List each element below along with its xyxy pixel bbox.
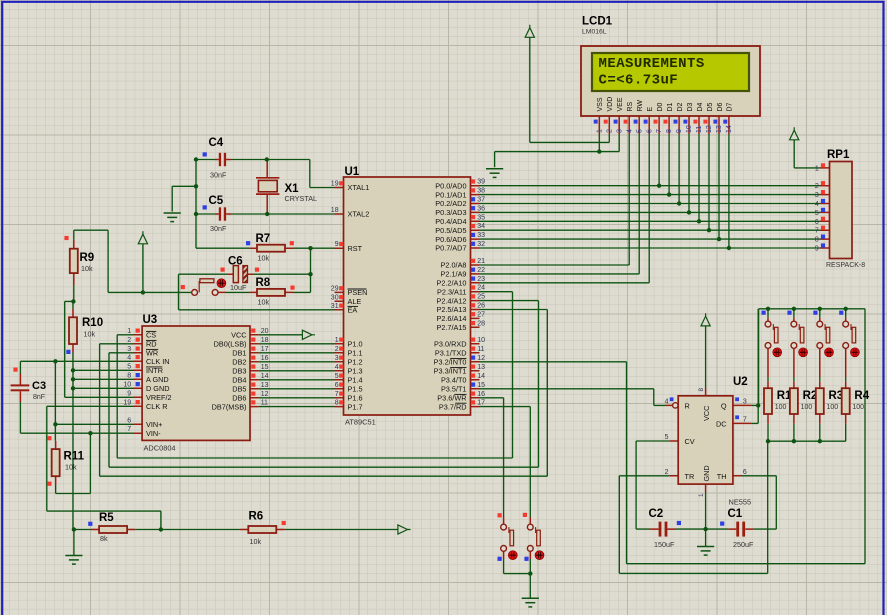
- svg-text:7: 7: [127, 426, 131, 433]
- svg-text:8: 8: [698, 388, 705, 392]
- svg-text:33: 33: [477, 232, 485, 239]
- svg-text:10k: 10k: [250, 537, 262, 546]
- svg-text:RD: RD: [146, 340, 157, 349]
- svg-text:U2: U2: [733, 376, 748, 388]
- svg-text:P0.5/AD5: P0.5/AD5: [435, 226, 466, 235]
- svg-text:20: 20: [261, 328, 269, 335]
- svg-text:34: 34: [477, 223, 485, 230]
- svg-text:D GND: D GND: [146, 384, 170, 393]
- svg-text:D1: D1: [667, 102, 674, 111]
- svg-text:9: 9: [676, 129, 683, 133]
- svg-text:15: 15: [261, 364, 269, 371]
- svg-text:30nF: 30nF: [210, 171, 227, 180]
- svg-text:D3: D3: [687, 102, 694, 111]
- svg-text:4: 4: [127, 354, 131, 361]
- svg-text:11: 11: [477, 346, 484, 353]
- svg-text:10: 10: [123, 381, 131, 388]
- svg-text:12: 12: [261, 391, 269, 398]
- svg-text:2: 2: [335, 346, 339, 353]
- svg-text:P1.4: P1.4: [348, 376, 363, 385]
- svg-text:2: 2: [665, 469, 669, 476]
- svg-text:AT89C51: AT89C51: [345, 418, 376, 427]
- svg-text:8: 8: [335, 400, 339, 407]
- svg-text:D7: D7: [727, 102, 734, 111]
- svg-text:150uF: 150uF: [654, 540, 675, 549]
- svg-text:INTR: INTR: [146, 366, 163, 375]
- svg-text:10k: 10k: [258, 254, 270, 263]
- svg-text:15: 15: [477, 382, 485, 389]
- svg-text:VCC: VCC: [702, 406, 711, 421]
- svg-text:XTAL2: XTAL2: [348, 210, 370, 219]
- svg-text:P3.3/INT1: P3.3/INT1: [434, 367, 467, 376]
- svg-text:9: 9: [335, 241, 339, 248]
- svg-text:TR: TR: [685, 472, 695, 481]
- svg-text:D0: D0: [657, 102, 664, 111]
- svg-text:D2: D2: [677, 102, 684, 111]
- svg-text:1: 1: [698, 493, 705, 497]
- svg-text:P1.3: P1.3: [348, 367, 363, 376]
- svg-text:CV: CV: [685, 437, 695, 446]
- svg-text:10k: 10k: [258, 298, 270, 307]
- svg-text:8: 8: [815, 237, 819, 244]
- svg-text:1: 1: [596, 129, 603, 133]
- svg-text:18: 18: [261, 337, 269, 344]
- svg-text:13: 13: [477, 364, 485, 371]
- svg-text:10uF: 10uF: [230, 283, 247, 292]
- svg-text:C5: C5: [209, 195, 224, 207]
- svg-text:P2.5/A13: P2.5/A13: [436, 305, 466, 314]
- svg-text:RW: RW: [637, 100, 644, 112]
- svg-text:4: 4: [626, 129, 633, 133]
- svg-text:1: 1: [127, 328, 131, 335]
- svg-text:U1: U1: [345, 166, 360, 178]
- svg-text:VDD: VDD: [607, 97, 614, 112]
- svg-text:6: 6: [646, 129, 653, 133]
- svg-text:6: 6: [127, 417, 131, 424]
- svg-text:7: 7: [743, 417, 747, 424]
- svg-text:6: 6: [335, 382, 339, 389]
- svg-text:VEE: VEE: [617, 97, 624, 111]
- svg-text:R: R: [685, 401, 690, 410]
- svg-text:P1.1: P1.1: [348, 349, 363, 358]
- svg-text:VSS: VSS: [597, 97, 604, 111]
- svg-text:C2: C2: [649, 508, 664, 520]
- svg-text:3: 3: [127, 346, 131, 353]
- svg-text:DB4: DB4: [232, 376, 246, 385]
- svg-text:RST: RST: [348, 244, 363, 253]
- svg-text:P3.2/INT0: P3.2/INT0: [434, 358, 467, 367]
- svg-text:P3.5/T1: P3.5/T1: [441, 385, 467, 394]
- svg-text:P2.0/A8: P2.0/A8: [441, 261, 467, 270]
- svg-text:5: 5: [665, 434, 669, 441]
- svg-text:8nF: 8nF: [33, 394, 45, 401]
- svg-text:DB2: DB2: [232, 358, 246, 367]
- svg-text:D4: D4: [697, 102, 704, 111]
- svg-text:14: 14: [726, 125, 733, 133]
- svg-text:8: 8: [127, 372, 131, 379]
- svg-text:PSEN: PSEN: [348, 288, 368, 297]
- svg-text:EA: EA: [348, 306, 358, 315]
- svg-text:18: 18: [331, 207, 339, 214]
- svg-text:VIN-: VIN-: [146, 429, 161, 438]
- svg-text:Q: Q: [721, 401, 727, 410]
- svg-text:P0.7/AD7: P0.7/AD7: [435, 244, 466, 253]
- svg-text:P1.6: P1.6: [348, 394, 363, 403]
- svg-text:8: 8: [666, 129, 673, 133]
- svg-text:P0.6/AD6: P0.6/AD6: [435, 235, 466, 244]
- svg-text:LCD1: LCD1: [582, 16, 613, 28]
- svg-text:10: 10: [477, 337, 485, 344]
- svg-text:C4: C4: [209, 137, 224, 149]
- svg-text:25: 25: [477, 294, 485, 301]
- svg-text:11: 11: [261, 400, 268, 407]
- svg-text:R8: R8: [256, 277, 271, 289]
- svg-text:VIN+: VIN+: [146, 420, 162, 429]
- svg-text:3: 3: [616, 129, 623, 133]
- svg-text:R6: R6: [249, 511, 264, 523]
- svg-text:4: 4: [665, 399, 669, 406]
- svg-text:P2.1/A9: P2.1/A9: [441, 270, 467, 279]
- svg-text:R10: R10: [82, 317, 103, 329]
- svg-text:D5: D5: [707, 102, 714, 111]
- svg-text:DB1: DB1: [232, 349, 246, 358]
- svg-text:250uF: 250uF: [733, 540, 754, 549]
- svg-text:P0.0/AD0: P0.0/AD0: [435, 181, 466, 190]
- svg-text:CS: CS: [146, 331, 156, 340]
- svg-text:DB5: DB5: [232, 385, 246, 394]
- svg-text:6: 6: [743, 469, 747, 476]
- svg-text:30nF: 30nF: [210, 224, 227, 233]
- svg-text:P0.4/AD4: P0.4/AD4: [435, 217, 466, 226]
- svg-text:7: 7: [335, 391, 339, 398]
- svg-text:13: 13: [716, 125, 723, 133]
- svg-text:14: 14: [477, 373, 485, 380]
- svg-text:11: 11: [696, 126, 703, 133]
- svg-text:P3.6/WR: P3.6/WR: [437, 394, 466, 403]
- svg-text:R4: R4: [854, 390, 869, 402]
- svg-text:5: 5: [636, 129, 643, 133]
- svg-text:10k: 10k: [65, 463, 77, 472]
- svg-text:P2.6/A14: P2.6/A14: [436, 314, 466, 323]
- svg-text:VREF/2: VREF/2: [146, 393, 172, 402]
- svg-text:17: 17: [477, 400, 485, 407]
- svg-text:8k: 8k: [100, 534, 108, 543]
- svg-text:5: 5: [335, 373, 339, 380]
- svg-text:14: 14: [261, 373, 269, 380]
- svg-text:DB7(MSB): DB7(MSB): [212, 402, 247, 411]
- svg-text:10: 10: [686, 125, 693, 133]
- svg-text:R7: R7: [256, 233, 271, 245]
- svg-text:27: 27: [477, 311, 485, 318]
- svg-text:36: 36: [477, 205, 485, 212]
- svg-text:16: 16: [477, 391, 485, 398]
- svg-text:P2.2/A10: P2.2/A10: [436, 279, 466, 288]
- svg-text:NE555: NE555: [729, 498, 752, 507]
- svg-text:26: 26: [477, 303, 485, 310]
- svg-text:1: 1: [335, 337, 339, 344]
- svg-text:TH: TH: [717, 472, 727, 481]
- svg-text:5: 5: [127, 363, 131, 370]
- svg-text:4: 4: [335, 364, 339, 371]
- svg-text:P2.7/A15: P2.7/A15: [436, 323, 466, 332]
- svg-text:C3: C3: [32, 380, 46, 392]
- svg-text:U3: U3: [143, 314, 158, 326]
- svg-text:DB6: DB6: [232, 394, 246, 403]
- svg-text:7: 7: [815, 228, 819, 235]
- svg-text:P2.4/A12: P2.4/A12: [436, 296, 466, 305]
- svg-text:ADC0804: ADC0804: [144, 444, 176, 453]
- svg-text:17: 17: [261, 346, 269, 353]
- svg-text:D6: D6: [717, 102, 724, 111]
- svg-text:C=<6.73uF: C=<6.73uF: [599, 73, 679, 89]
- svg-text:P3.4/T0: P3.4/T0: [441, 376, 467, 385]
- svg-text:38: 38: [477, 188, 485, 195]
- svg-text:P1.5: P1.5: [348, 385, 363, 394]
- svg-text:35: 35: [477, 214, 485, 221]
- svg-text:16: 16: [261, 355, 269, 362]
- svg-text:100: 100: [827, 404, 839, 411]
- svg-text:30: 30: [331, 294, 339, 301]
- svg-text:P3.0/RXD: P3.0/RXD: [434, 340, 466, 349]
- svg-text:100: 100: [801, 404, 813, 411]
- svg-text:28: 28: [477, 320, 485, 327]
- svg-text:19: 19: [331, 181, 339, 188]
- svg-text:P1.2: P1.2: [348, 358, 363, 367]
- svg-text:P3.1/TXD: P3.1/TXD: [435, 349, 467, 358]
- svg-text:LM016L: LM016L: [582, 29, 607, 36]
- svg-text:P1.0: P1.0: [348, 340, 363, 349]
- svg-text:5: 5: [815, 210, 819, 217]
- svg-text:RESPACK-8: RESPACK-8: [826, 262, 865, 269]
- svg-text:DB3: DB3: [232, 367, 246, 376]
- svg-text:2: 2: [815, 183, 819, 190]
- svg-text:RP1: RP1: [827, 149, 850, 161]
- svg-text:RS: RS: [627, 101, 634, 111]
- svg-text:R5: R5: [99, 512, 114, 524]
- svg-text:R9: R9: [80, 252, 95, 264]
- svg-text:2: 2: [606, 129, 613, 133]
- svg-text:6: 6: [815, 219, 819, 226]
- svg-text:E: E: [647, 107, 654, 112]
- svg-text:3: 3: [743, 399, 747, 406]
- svg-text:100: 100: [852, 404, 864, 411]
- svg-text:22: 22: [477, 267, 485, 274]
- svg-text:P0.2/AD2: P0.2/AD2: [435, 199, 466, 208]
- svg-text:39: 39: [477, 179, 485, 186]
- svg-text:100: 100: [775, 404, 787, 411]
- svg-text:19: 19: [123, 399, 131, 406]
- svg-text:DB0(LSB): DB0(LSB): [214, 340, 247, 349]
- svg-text:VCC: VCC: [231, 331, 246, 340]
- svg-text:12: 12: [477, 355, 485, 362]
- svg-text:P2.3/A11: P2.3/A11: [437, 287, 466, 296]
- svg-text:CLK R: CLK R: [146, 402, 168, 411]
- svg-text:21: 21: [477, 258, 485, 265]
- svg-text:9: 9: [815, 246, 819, 253]
- svg-text:37: 37: [477, 197, 485, 204]
- svg-text:2: 2: [127, 337, 131, 344]
- svg-text:DC: DC: [716, 420, 727, 429]
- svg-text:31: 31: [331, 303, 339, 310]
- svg-text:32: 32: [477, 241, 485, 248]
- svg-text:P1.7: P1.7: [348, 402, 363, 411]
- svg-text:10k: 10k: [84, 330, 96, 339]
- svg-text:29: 29: [331, 285, 339, 292]
- svg-text:3: 3: [335, 355, 339, 362]
- svg-text:1: 1: [815, 165, 819, 172]
- svg-text:P0.1/AD1: P0.1/AD1: [435, 190, 466, 199]
- svg-text:3: 3: [815, 192, 819, 199]
- svg-text:13: 13: [261, 382, 269, 389]
- svg-text:A GND: A GND: [146, 375, 169, 384]
- svg-text:24: 24: [477, 285, 485, 292]
- svg-text:XTAL1: XTAL1: [348, 183, 370, 192]
- svg-text:C1: C1: [728, 508, 743, 520]
- svg-text:4: 4: [815, 201, 819, 208]
- svg-text:MEASUREMENTS: MEASUREMENTS: [599, 56, 705, 72]
- svg-text:7: 7: [656, 129, 663, 133]
- svg-text:C6: C6: [228, 256, 243, 268]
- svg-text:R11: R11: [64, 451, 85, 463]
- svg-text:CRYSTAL: CRYSTAL: [285, 194, 318, 203]
- svg-text:CLK IN: CLK IN: [146, 357, 170, 366]
- svg-text:9: 9: [127, 390, 131, 397]
- svg-text:GND: GND: [702, 465, 711, 481]
- svg-text:23: 23: [477, 276, 485, 283]
- svg-text:P0.3/AD3: P0.3/AD3: [435, 208, 466, 217]
- svg-text:10k: 10k: [81, 264, 93, 273]
- svg-text:12: 12: [706, 125, 713, 133]
